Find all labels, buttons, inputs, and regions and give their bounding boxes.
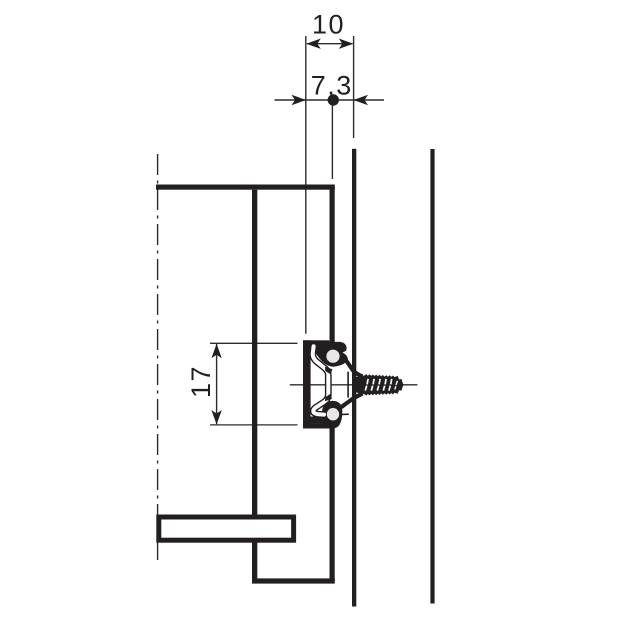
dimension 10 line [307,43,353,45]
slide outer channel bottom arm [303,423,328,428]
dimension 17 vertical line [216,344,218,424]
dimension 7,3 left arrowhead [292,95,307,105]
dimension 17 top extension line [210,342,298,344]
wall line near [352,149,356,607]
drawer side panel top line [156,185,335,190]
drawer side panel inner edge lower part [252,543,257,584]
dimension 10 left arrowhead [306,39,321,49]
lower ball bearing [327,408,339,420]
mounting screw silhouette [356,374,404,396]
screw thread white hatching [367,379,368,385]
upper whisker: blob to screw head top corner [345,358,363,376]
upper ball bearing [326,350,339,363]
dimension 10 right arrowhead [339,39,354,49]
dash-dot centerline (cabinet front face) [157,154,159,565]
inner member upper fold wedge [325,367,332,375]
inner member lower fold wedge [325,394,332,401]
drawer side panel inner edge upper part [252,190,257,515]
upper race blob [312,342,348,367]
lower race blob [322,401,342,429]
screw head face line [347,372,349,398]
screw hole position dot [328,94,339,105]
cross bar rectangle [159,517,294,540]
screw axis centerline [290,384,418,386]
drawer side panel right edge lower part [330,426,335,584]
small lip tick right of lower ball [341,413,349,415]
slide outer channel back [303,340,311,428]
svg-text:17: 17 [186,365,216,398]
lower whisker: blob to screw head bottom corner [341,394,362,408]
wall line far [430,149,434,604]
dimension 7,3 right arrowhead [354,95,369,105]
dimension 7,3 line [275,99,385,101]
drawer side panel right edge upper part [330,185,335,347]
extension line right for dims 10 and 7,3 [353,36,355,138]
slide bottom lip bar [309,417,327,424]
leader line from hole dot [331,100,333,179]
screw tip hatch [396,381,397,385]
extension line left for dims 10 and 7,3 [305,36,307,334]
dimension 17 bottom arrowhead [211,410,221,425]
svg-text:10: 10 [312,10,345,40]
dimension 17 top arrowhead [211,344,221,359]
inner member S-web black outline [313,346,329,414]
slide outer channel top arm [303,340,329,345]
svg-text:7,3: 7,3 [311,71,353,101]
inner member S-web white core [313,346,329,414]
dimension 17 bottom extension line [210,424,298,426]
drawer side panel bottom line [252,578,335,583]
